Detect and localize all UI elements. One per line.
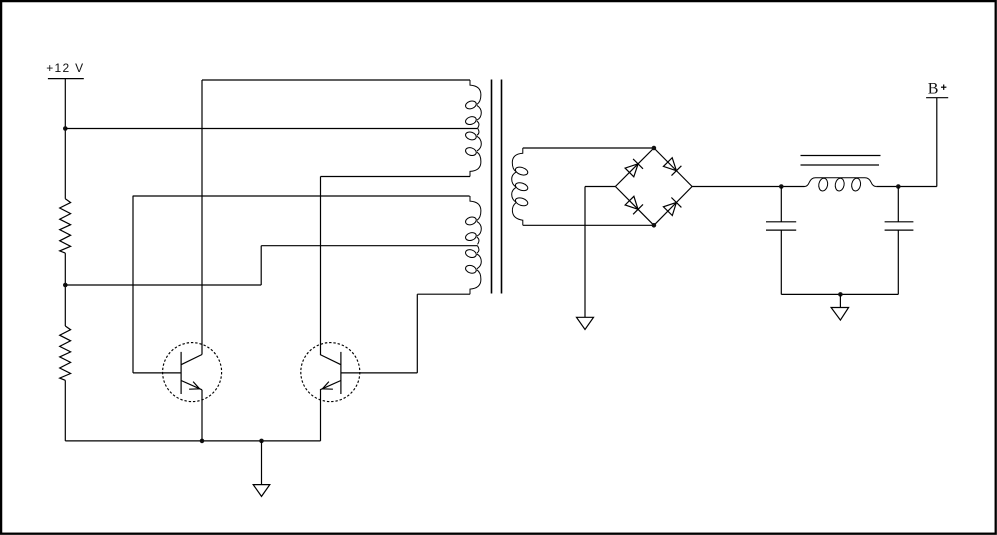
wire secondary bottom to bridge bbox=[523, 224, 654, 226]
diode D2 (bridge top-to-right) bbox=[654, 148, 692, 187]
transformer T1 primary lower half winding bbox=[465, 128, 482, 176]
wire +12V down to R1 bbox=[64, 79, 66, 199]
wire divider tap to feedback winding center tap bbox=[261, 245, 477, 247]
transistor Q2 envelope (dashed circle) bbox=[301, 343, 360, 402]
inductor L1 bbox=[805, 178, 877, 192]
transformer T1 core line 2 bbox=[501, 80, 503, 294]
wire Q2 base lead bbox=[341, 372, 417, 374]
ground G2 stem bbox=[584, 187, 586, 318]
wire Q1 base lead bbox=[133, 372, 181, 374]
wire Q2 base riser bbox=[416, 294, 418, 373]
transistor Q1 base bar bbox=[180, 352, 182, 394]
node B junction dot (bias divider tap) bbox=[63, 283, 68, 288]
wire emitter ground rail bbox=[65, 440, 320, 442]
wire Q1 base to feedback winding top bbox=[133, 195, 470, 197]
capacitor C2 bbox=[885, 222, 914, 230]
resistor R1 bbox=[60, 199, 71, 253]
wire Q1 base riser bbox=[132, 196, 134, 373]
wire filter ground rail bbox=[781, 293, 898, 295]
wire L1 to output node bbox=[876, 186, 937, 188]
capacitor C1 bottom lead bbox=[780, 230, 782, 294]
wire R2 to emitter rail bbox=[64, 380, 66, 441]
wire +12V rail to transformer primary center tap bbox=[65, 128, 477, 130]
wire Q2 base to feedback winding bottom bbox=[417, 293, 470, 295]
wire Q2 collector to primary bottom bbox=[321, 176, 471, 178]
transistor Q2 collector diagonal bbox=[320, 355, 341, 365]
capacitor C2 bottom lead bbox=[897, 230, 899, 294]
transformer T1 primary upper half winding bbox=[465, 80, 482, 128]
transformer T1 core line 1 bbox=[491, 80, 493, 294]
wire Q2 emitter drop bbox=[320, 390, 322, 441]
transistor Q1 emitter arrow bbox=[189, 382, 200, 390]
diode D4 (bridge bottom-to-right) bbox=[654, 187, 692, 226]
transformer T1 feedback lower half winding bbox=[465, 246, 482, 294]
transistor Q1 collector diagonal bbox=[181, 355, 202, 365]
wire Q1 emitter drop bbox=[201, 390, 203, 441]
node C junction dot (Q1 emitter on rail) bbox=[200, 439, 205, 444]
transistor Q1 emitter diagonal bbox=[181, 381, 202, 390]
wire bridge positive corner to filter bbox=[692, 186, 804, 188]
node D junction dot (rail ground tap) bbox=[259, 439, 264, 444]
transistor Q1 envelope (dashed circle) bbox=[163, 343, 222, 402]
node bridge AC top junction dot bbox=[652, 146, 657, 151]
wire secondary top to bridge bbox=[523, 147, 654, 149]
ground G1 stem bbox=[261, 441, 263, 485]
capacitor C1 bbox=[766, 222, 796, 230]
wire divider tap riser bbox=[260, 246, 262, 285]
ground G1 bbox=[253, 485, 270, 497]
transformer T1 secondary winding bbox=[512, 148, 529, 225]
wire R1 to R2 bbox=[64, 253, 66, 326]
transformer T1 feedback upper half winding bbox=[465, 196, 482, 244]
wire Q2 collector riser bbox=[320, 177, 322, 355]
svg-text:+12 V: +12 V bbox=[46, 61, 83, 75]
node B+ terminal bar bbox=[926, 97, 948, 99]
transistor Q2 emitter diagonal bbox=[320, 381, 341, 390]
wire divider tap horizontal bbox=[65, 284, 261, 286]
node output junction dot bbox=[896, 184, 901, 189]
node filter ground junction dot bbox=[838, 292, 843, 297]
capacitor C1 top lead bbox=[780, 187, 782, 222]
wire output riser to B+ bbox=[936, 98, 938, 187]
node bridge AC bottom junction dot bbox=[652, 223, 657, 228]
ground G3 stem bbox=[839, 294, 841, 307]
inductor L1 core line 1 bbox=[801, 155, 881, 157]
wire bridge negative corner to ground bbox=[585, 186, 615, 188]
diode D1 (bridge left-to-top) bbox=[615, 148, 654, 187]
resistor R2 bbox=[60, 326, 71, 380]
node filter input junction dot bbox=[779, 184, 784, 189]
wire Q1 collector riser bbox=[201, 80, 203, 355]
ground G3 bbox=[831, 308, 849, 321]
transistor Q2 emitter arrow bbox=[322, 382, 333, 390]
svg-text:B: B bbox=[928, 81, 939, 98]
transistor Q2 base bar bbox=[340, 352, 342, 394]
power rail +12V bar bbox=[48, 78, 84, 80]
capacitor C2 top lead bbox=[897, 187, 899, 222]
node A junction dot (+12V distribution) bbox=[63, 126, 68, 131]
wire Q1 collector to primary top bbox=[202, 79, 470, 81]
diode D3 (bridge left-to-bottom) bbox=[615, 187, 654, 226]
ground G2 bbox=[577, 317, 594, 329]
inductor L1 core line 2 bbox=[801, 164, 880, 166]
